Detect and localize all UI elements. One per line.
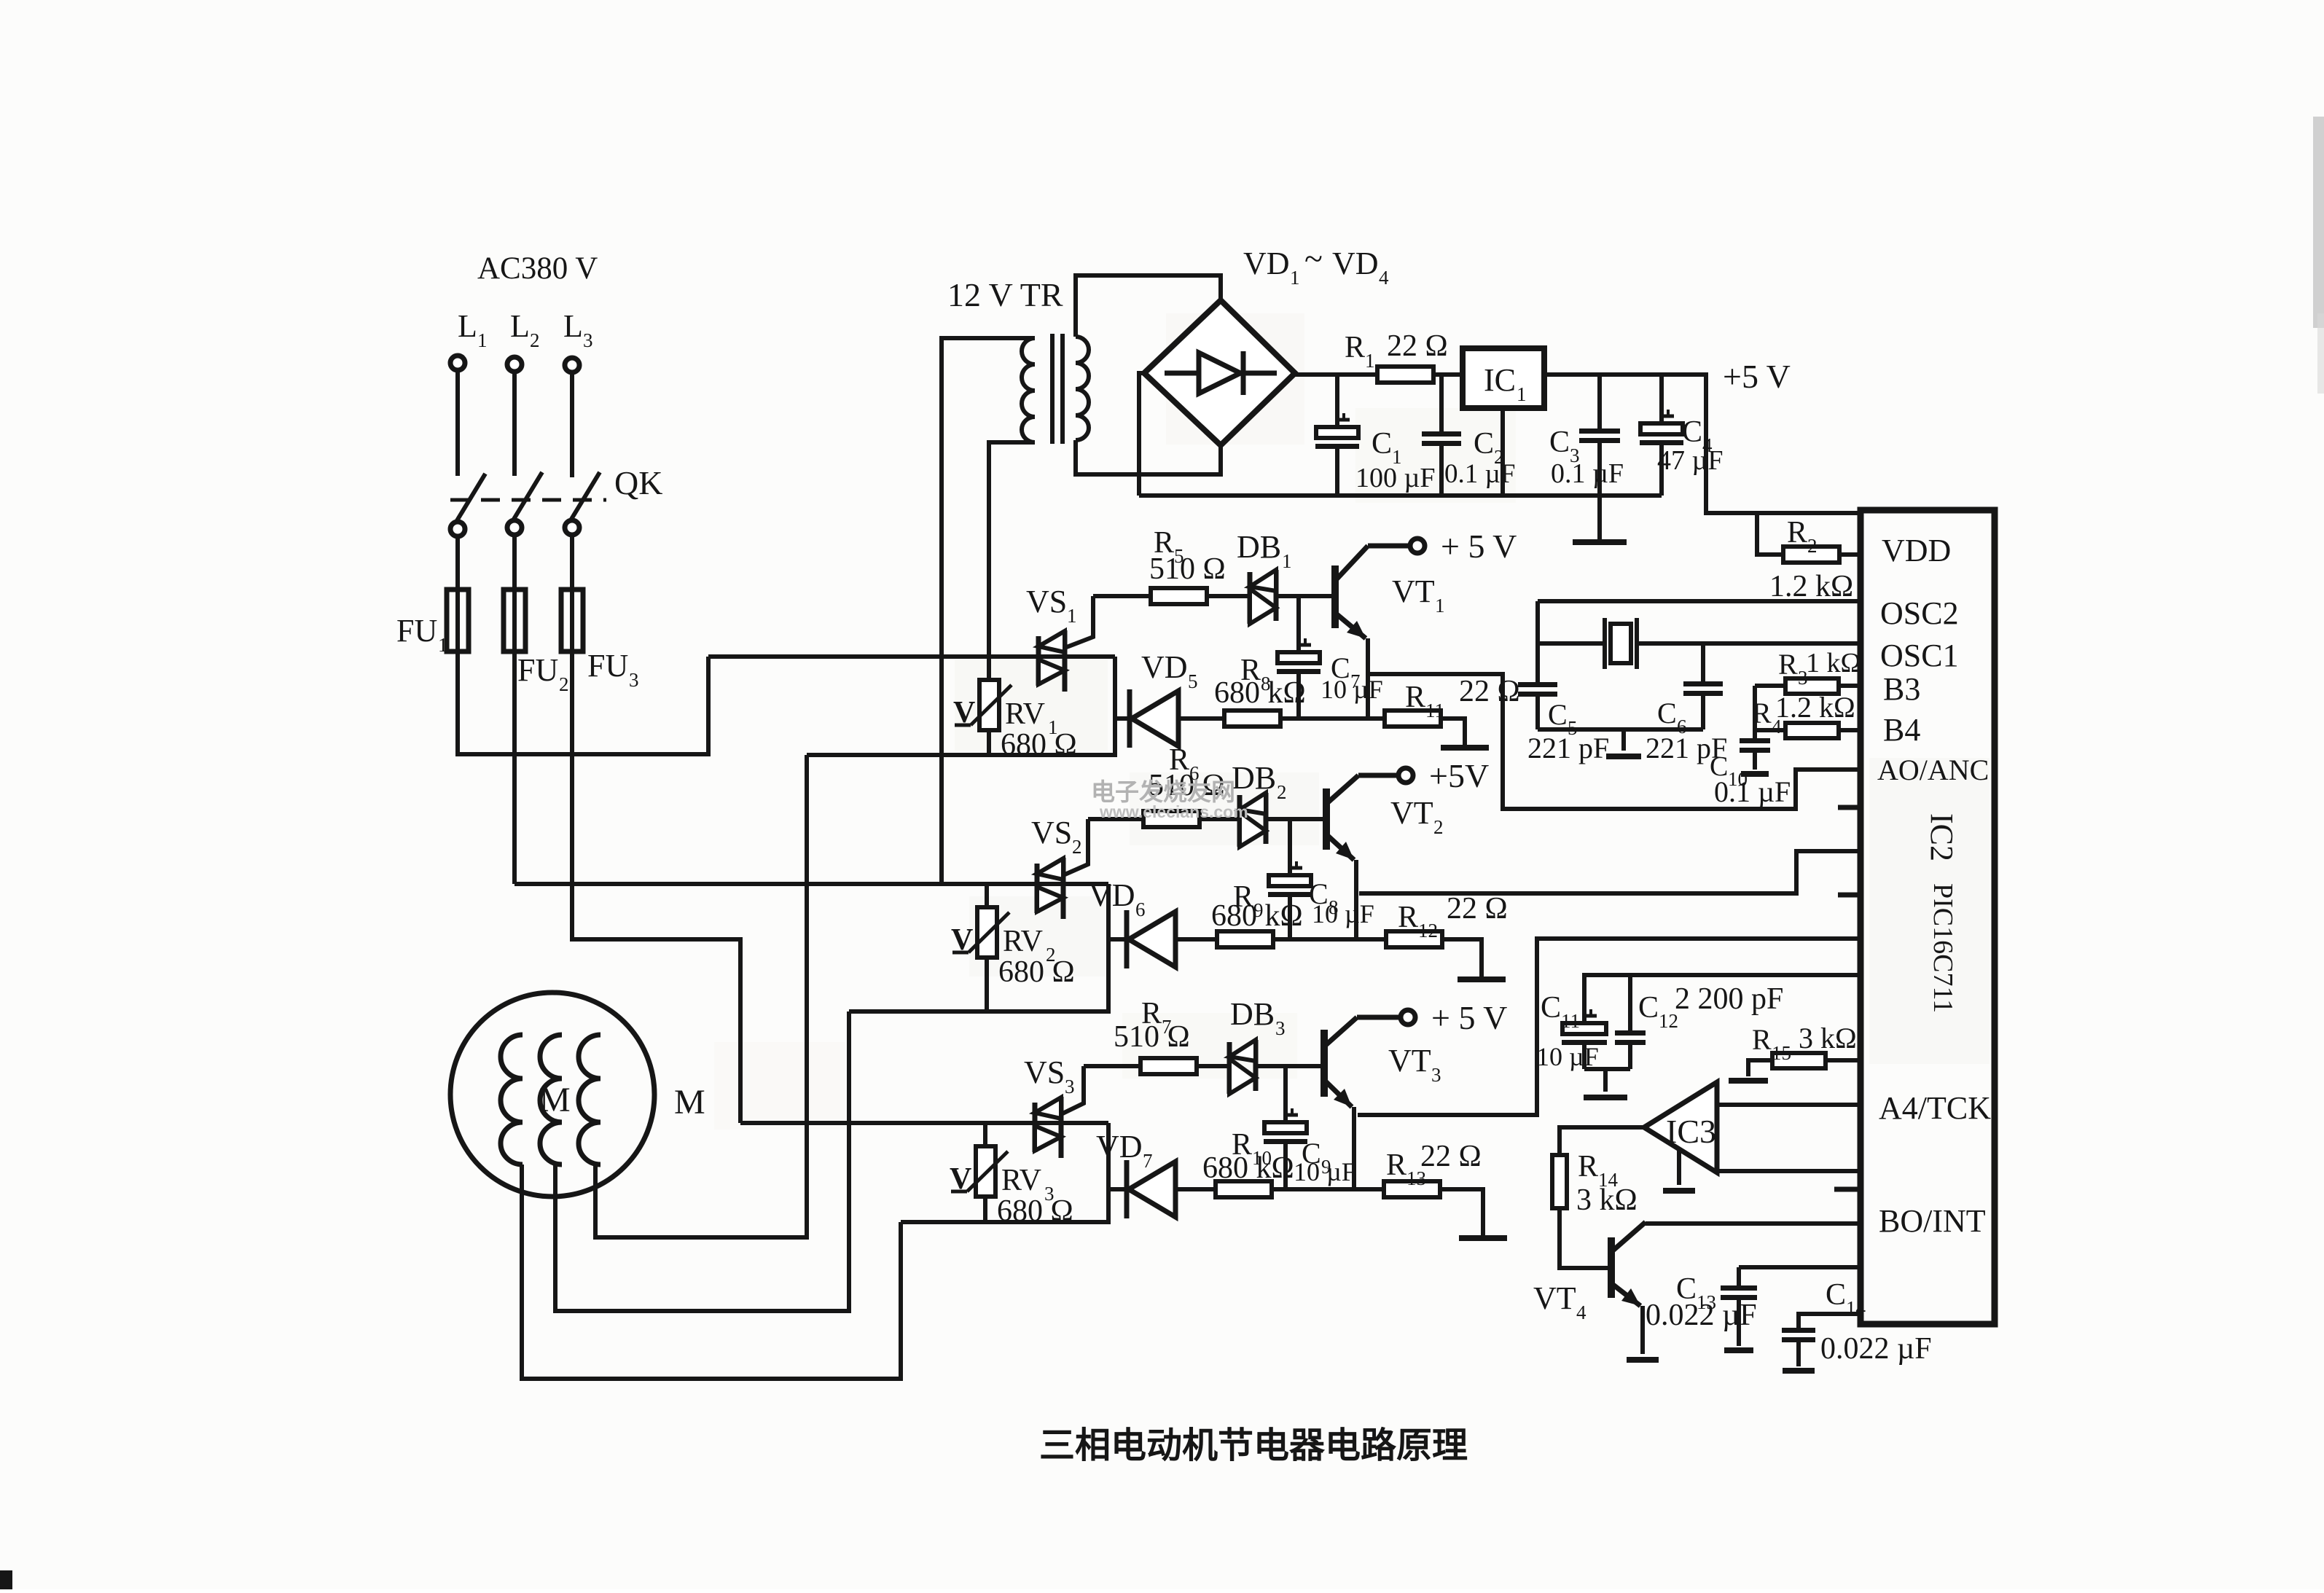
- switch QK pole1 blade: [456, 474, 485, 522]
- IC2 box: [1861, 510, 1995, 1324]
- svg-text:VS: VS: [1031, 815, 1072, 850]
- resistor R6: [1088, 817, 1143, 821]
- capacitor C11 lead: [1582, 1045, 1586, 1069]
- IC1 ground pin: [1501, 408, 1505, 496]
- fuse FU1: [447, 590, 469, 651]
- scan texture patches: [955, 659, 1108, 751]
- wire motor w2: [555, 1165, 849, 1311]
- svg-text:2: 2: [530, 329, 540, 351]
- svg-text:1.2 kΩ: 1.2 kΩ: [1775, 691, 1855, 724]
- IC1 box: [1463, 348, 1544, 408]
- transformer TR secondary winding: [1076, 337, 1089, 440]
- svg-text:3: 3: [629, 669, 639, 691]
- switch contact 2: [507, 520, 522, 535]
- capacitor C2: [1422, 431, 1461, 437]
- resistor R9: [1217, 931, 1273, 947]
- svg-text:VD: VD: [1141, 649, 1188, 685]
- fuse FU3: [561, 590, 583, 651]
- capacitor C10: [1740, 738, 1770, 743]
- resistor R2 branch: [1757, 513, 1783, 555]
- transistor VT4: [1608, 1237, 1615, 1298]
- wire IC3 in bottom: [1717, 1169, 1861, 1173]
- svg-text:OSC2: OSC2: [1880, 595, 1959, 631]
- svg-text:DB: DB: [1230, 996, 1275, 1032]
- svg-text:FU: FU: [587, 648, 628, 684]
- svg-text:VD: VD: [1243, 246, 1290, 281]
- svg-text:VD: VD: [1089, 877, 1135, 913]
- wire FU3 through+down: [572, 592, 740, 1123]
- svg-text:V: V: [950, 1162, 971, 1196]
- svg-text:RV: RV: [1003, 925, 1043, 958]
- wire box3 to motor: [522, 1222, 901, 1379]
- svg-text:L: L: [458, 308, 477, 344]
- wire L1 drop: [455, 371, 460, 476]
- capacitor C3 leads: [1597, 375, 1602, 428]
- triac VS2: [1035, 864, 1040, 913]
- wire R13 to ground: [1440, 1189, 1483, 1235]
- resistor R15: [1772, 1053, 1826, 1068]
- capacitor C13 lead2: [1737, 1300, 1741, 1346]
- svg-text:510 Ω: 510 Ω: [1114, 1020, 1190, 1054]
- svg-text:V: V: [951, 923, 973, 957]
- wire R10 to R13: [1272, 1187, 1384, 1191]
- svg-text:2: 2: [1277, 781, 1287, 803]
- svg-text:0.022 µF: 0.022 µF: [1820, 1332, 1932, 1366]
- terminal L3: [565, 358, 579, 372]
- capacitor C8: [1269, 875, 1311, 886]
- svg-text:3 kΩ: 3 kΩ: [1799, 1022, 1857, 1054]
- VT4 ground: [1627, 1357, 1659, 1363]
- svg-text:3: 3: [1431, 1064, 1441, 1086]
- wire OSC2: [1538, 599, 1861, 603]
- diode VD5: [1127, 689, 1132, 748]
- wire DB2 to VT2: [1266, 817, 1326, 821]
- svg-text:12: 12: [1418, 920, 1438, 942]
- svg-text:R: R: [1752, 1023, 1772, 1056]
- svg-text:12 V TR: 12 V TR: [947, 276, 1063, 313]
- ground under C3: [1573, 539, 1627, 545]
- wire box3 right+bottom: [901, 1123, 1108, 1222]
- wire sense ch1: [1370, 674, 1861, 809]
- svg-text:680 Ω: 680 Ω: [998, 955, 1075, 989]
- wire OSC2 drop: [1535, 601, 1540, 682]
- svg-text:5: 5: [1188, 670, 1198, 692]
- terminal L1: [450, 356, 465, 370]
- transistor VT1: [1331, 565, 1339, 628]
- motor M circle: [450, 993, 654, 1197]
- svg-text:2: 2: [559, 673, 569, 695]
- svg-text:3: 3: [1065, 1076, 1075, 1097]
- svg-text:VT: VT: [1533, 1280, 1576, 1316]
- svg-text:RV: RV: [1001, 1164, 1041, 1197]
- capacitor C6: [1683, 681, 1723, 686]
- resistor R11: [1385, 711, 1441, 727]
- svg-text:3 kΩ: 3 kΩ: [1576, 1183, 1638, 1217]
- svg-text:0.1 µF: 0.1 µF: [1551, 458, 1624, 489]
- resistor R5: [1093, 594, 1151, 598]
- svg-text:+ 5 V: + 5 V: [1441, 528, 1517, 565]
- svg-text:DB: DB: [1237, 529, 1281, 565]
- wire R14 to VT4: [1560, 1208, 1608, 1268]
- capacitor C7 lead: [1296, 596, 1301, 652]
- svg-text:www.elecians.com: www.elecians.com: [1099, 802, 1248, 821]
- svg-text:680 kΩ: 680 kΩ: [1211, 899, 1303, 933]
- wire C6 bottom: [1701, 696, 1705, 729]
- wire DB3 to VT3: [1256, 1064, 1324, 1068]
- svg-text:22 Ω: 22 Ω: [1447, 892, 1508, 925]
- svg-text:OSC1: OSC1: [1880, 638, 1959, 673]
- scan smudge right edge: [2313, 117, 2324, 328]
- svg-text:B4: B4: [1883, 712, 1920, 748]
- svg-text:2: 2: [1072, 836, 1082, 858]
- IC2 pin nub b: [1838, 893, 1861, 898]
- svg-text:6: 6: [1135, 899, 1146, 920]
- transformer TR primary winding: [1022, 338, 1035, 442]
- svg-text:1: 1: [477, 329, 488, 351]
- svg-text:1: 1: [1290, 267, 1300, 289]
- wire box2 to VD6: [1108, 937, 1127, 942]
- capacitor C4 leads: [1659, 375, 1664, 423]
- diode VD7: [1124, 1160, 1130, 1218]
- wire TR secondary top to bridge: [1076, 275, 1221, 337]
- wire pole2 to FU2: [512, 536, 517, 592]
- svg-text:C: C: [1638, 991, 1659, 1025]
- ground ch2: [1458, 976, 1506, 982]
- wire phase1: [708, 654, 1115, 659]
- wire sense ch2: [1359, 851, 1861, 893]
- svg-text:4: 4: [1576, 1302, 1586, 1323]
- wire motor w1: [522, 1165, 901, 1379]
- svg-text:14: 14: [1846, 1297, 1866, 1319]
- svg-text:B3: B3: [1883, 671, 1920, 707]
- wire OSC1: [1538, 641, 1605, 646]
- svg-text:47 µF: 47 µF: [1657, 445, 1724, 476]
- svg-text:FU: FU: [517, 652, 558, 688]
- bridge inner diode: [1165, 371, 1277, 376]
- wire VD6 to R9: [1175, 937, 1217, 942]
- svg-text:PIC16C711: PIC16C711: [1928, 883, 1958, 1013]
- svg-text:DB: DB: [1232, 760, 1276, 796]
- svg-text:R: R: [1405, 681, 1425, 714]
- wire sense ch3: [1358, 939, 1861, 1115]
- fuse FU2: [504, 590, 525, 651]
- wire osc bottom: [1538, 727, 1703, 732]
- svg-text:10 µF: 10 µF: [1312, 899, 1374, 928]
- svg-text:R: R: [1398, 901, 1418, 934]
- wire C11C12 bottom: [1584, 1067, 1630, 1071]
- svg-text:3: 3: [1275, 1017, 1286, 1039]
- C11C12 ground: [1603, 1069, 1608, 1092]
- triac VS3: [1033, 1103, 1038, 1152]
- varistor RV3 leads: [983, 1123, 987, 1146]
- wire IC3 out: [1560, 1127, 1644, 1155]
- capacitor C9: [1264, 1122, 1307, 1133]
- wire bridge minus down: [1139, 373, 1144, 496]
- switch QK pole2 blade: [513, 472, 542, 520]
- svg-text:IC2: IC2: [1924, 813, 1960, 861]
- svg-text:V: V: [953, 696, 975, 729]
- svg-text:QK: QK: [614, 464, 662, 501]
- op-amp IC3: [1644, 1082, 1717, 1173]
- svg-text:C: C: [1549, 426, 1570, 459]
- wire C5 bottom: [1535, 697, 1540, 729]
- svg-text:10 µF: 10 µF: [1294, 1157, 1356, 1186]
- wire TR primary bottom: [989, 442, 1035, 658]
- IC3 ground: [1677, 1149, 1681, 1185]
- svg-text:2: 2: [1807, 535, 1818, 557]
- svg-text:IC3: IC3: [1666, 1113, 1716, 1150]
- svg-text:R: R: [1752, 697, 1772, 729]
- svg-text:AC380 V: AC380 V: [477, 251, 598, 286]
- svg-text:VS: VS: [1026, 584, 1067, 619]
- svg-text:RV: RV: [1005, 697, 1045, 731]
- svg-text:680 kΩ: 680 kΩ: [1214, 676, 1306, 710]
- resistor R1: [1377, 367, 1433, 383]
- svg-text:22 Ω: 22 Ω: [1420, 1140, 1482, 1173]
- crystal X1: [1603, 618, 1607, 669]
- switch contact 1: [450, 522, 465, 536]
- diac DB1: [1248, 572, 1253, 624]
- resistor R2: [1783, 547, 1839, 563]
- svg-text:221 pF: 221 pF: [1527, 732, 1609, 764]
- svg-text:680 kΩ: 680 kΩ: [1202, 1151, 1294, 1185]
- svg-text:22 Ω: 22 Ω: [1459, 675, 1520, 708]
- svg-text:电子发烧友网: 电子发烧友网: [1091, 778, 1235, 805]
- svg-text:R: R: [1345, 331, 1365, 364]
- capacitor C13 wire: [1739, 1265, 1861, 1269]
- svg-text:3: 3: [583, 329, 593, 351]
- wire phase2: [515, 882, 1108, 886]
- svg-text:AO/ANC: AO/ANC: [1877, 754, 1989, 786]
- transformer core: [1050, 334, 1055, 444]
- wire R1 to IC1: [1433, 372, 1463, 377]
- capacitor C7 lead2: [1296, 674, 1301, 719]
- svg-text:L: L: [510, 308, 530, 344]
- wire phase3: [740, 1121, 1108, 1125]
- svg-text:1: 1: [438, 634, 448, 656]
- capacitor C12 lead: [1628, 975, 1632, 1030]
- wire VT4 collector to BO/INT: [1646, 1221, 1861, 1226]
- motor winding 3: [579, 1035, 600, 1165]
- wire VD7 to R10: [1175, 1187, 1216, 1191]
- capacitor C5: [1518, 682, 1557, 687]
- svg-text:0.1 µF: 0.1 µF: [1714, 775, 1791, 808]
- svg-text:~: ~: [1304, 240, 1323, 277]
- capacitor C12: [1615, 1030, 1646, 1036]
- capacitor C7: [1278, 652, 1320, 663]
- capacitor C8 lead2: [1288, 897, 1292, 939]
- resistor R12: [1386, 931, 1442, 947]
- terminal +5V ch1: [1410, 539, 1425, 553]
- varistor RV3: [976, 1146, 995, 1197]
- svg-text:100 µF: 100 µF: [1355, 463, 1436, 493]
- R15 ground: [1729, 1078, 1768, 1084]
- svg-text:1: 1: [1517, 383, 1527, 405]
- svg-text:C: C: [1541, 991, 1561, 1025]
- svg-text:C: C: [1548, 698, 1568, 731]
- svg-text:R: R: [1578, 1150, 1598, 1183]
- svg-text:VD: VD: [1096, 1129, 1143, 1165]
- diac DB3: [1227, 1042, 1232, 1094]
- svg-text:+5 V: +5 V: [1723, 358, 1791, 395]
- svg-text:C: C: [1657, 697, 1677, 729]
- transistor VT2: [1323, 788, 1330, 850]
- svg-text:C: C: [1826, 1278, 1846, 1312]
- capacitor C2 leads: [1439, 375, 1444, 431]
- svg-text:FU: FU: [396, 613, 437, 649]
- capacitor C3: [1579, 428, 1620, 434]
- capacitor C4: [1640, 423, 1683, 434]
- wire pole1 to FU1: [455, 537, 460, 592]
- svg-text:M: M: [539, 1081, 571, 1119]
- wire R9 to R12: [1273, 937, 1386, 942]
- capacitor C14: [1782, 1328, 1815, 1333]
- wire VD5 to R8: [1178, 716, 1224, 721]
- diode VD6: [1124, 910, 1130, 968]
- svg-text:VT: VT: [1388, 1043, 1431, 1079]
- svg-text:11: 11: [1561, 1010, 1580, 1032]
- svg-text:三相电动机节电器电路原理: 三相电动机节电器电路原理: [1039, 1426, 1468, 1465]
- svg-text:C: C: [1372, 427, 1392, 461]
- scan mark bottom-left: [0, 1570, 12, 1589]
- switch contact 3: [565, 520, 579, 535]
- wire C12 bottom: [1628, 1045, 1632, 1069]
- svg-text:680 Ω: 680 Ω: [1001, 728, 1077, 762]
- motor winding 2: [540, 1035, 562, 1165]
- resistor R8: [1224, 711, 1280, 727]
- switch QK pole3 blade: [571, 472, 600, 520]
- terminal +5V ch2: [1398, 768, 1413, 783]
- wire L3 drop: [570, 373, 574, 477]
- terminal +5V ch3: [1401, 1010, 1415, 1025]
- svg-text:1: 1: [1282, 550, 1292, 572]
- motor winding 1: [501, 1035, 523, 1165]
- wire C11C12 top: [1584, 975, 1861, 1023]
- varistor RV1 leads: [987, 657, 991, 680]
- svg-text:+5V: +5V: [1429, 757, 1489, 794]
- svg-text:1: 1: [1435, 595, 1445, 617]
- wire IC3 in top: [1717, 1103, 1861, 1107]
- wire box1 to motor: [595, 755, 807, 1237]
- svg-text:M: M: [674, 1083, 705, 1122]
- capacitor C9 lead: [1283, 1066, 1288, 1122]
- svg-text:2 200 pF: 2 200 pF: [1675, 982, 1783, 1016]
- IC2 pin nub c: [1834, 1187, 1861, 1192]
- wire R12 to ground: [1442, 939, 1482, 976]
- capacitor C13: [1721, 1285, 1757, 1291]
- ground ch3: [1459, 1235, 1507, 1241]
- svg-text:1: 1: [1067, 605, 1077, 627]
- svg-text:R: R: [1778, 648, 1798, 681]
- terminal L2: [507, 357, 522, 372]
- diac DB2: [1237, 795, 1243, 847]
- svg-text:7: 7: [1143, 1150, 1153, 1172]
- svg-text:L: L: [563, 308, 583, 344]
- capacitor C6 lead: [1701, 643, 1705, 681]
- wire box2 to motor: [555, 1011, 849, 1311]
- capacitor C8 lead: [1288, 819, 1292, 875]
- ground ch1: [1441, 745, 1489, 751]
- svg-text:1.2 kΩ: 1.2 kΩ: [1769, 570, 1853, 603]
- bridge rectifier VD1-VD4: [1144, 300, 1295, 445]
- svg-text:VT: VT: [1390, 795, 1433, 831]
- svg-text:22 Ω: 22 Ω: [1387, 329, 1448, 363]
- capacitor C11: [1562, 1023, 1606, 1034]
- wire R8 to R11: [1280, 716, 1385, 721]
- capacitor C1: [1316, 427, 1358, 438]
- svg-text:+ 5 V: + 5 V: [1431, 999, 1507, 1036]
- svg-text:IC: IC: [1484, 362, 1516, 398]
- svg-text:VD: VD: [1332, 246, 1379, 281]
- wire bridge plus to R1: [1295, 372, 1377, 377]
- switch QK dashed link: [450, 498, 606, 502]
- resistor R3: [1755, 684, 1785, 688]
- wire L2 drop: [512, 372, 517, 476]
- capacitor C14 wire: [1799, 1314, 1861, 1328]
- svg-text:VT: VT: [1392, 574, 1435, 609]
- svg-text:2: 2: [1433, 816, 1444, 838]
- svg-text:10 µF: 10 µF: [1321, 675, 1383, 704]
- wire pole3 to FU3: [570, 536, 574, 592]
- wire motor w3: [595, 1165, 807, 1237]
- transistor VT3: [1321, 1030, 1328, 1097]
- resistor R10: [1216, 1181, 1272, 1197]
- wire TR secondary bottom to bridge: [1076, 440, 1221, 474]
- svg-text:BO/INT: BO/INT: [1879, 1203, 1986, 1239]
- wire 0V rail: [1139, 493, 1662, 498]
- svg-text:C: C: [1682, 415, 1702, 449]
- wire IC1 out: [1544, 375, 1861, 513]
- capacitor C14 lead2: [1796, 1342, 1801, 1366]
- C13 ground: [1724, 1347, 1753, 1353]
- resistor R4: [1755, 728, 1785, 732]
- C14 ground: [1783, 1368, 1815, 1374]
- resistor R14: [1552, 1155, 1567, 1208]
- wire DB1 to VT1: [1276, 594, 1335, 598]
- capacitor C1 leads: [1335, 375, 1339, 427]
- svg-text:C: C: [1474, 427, 1494, 461]
- IC2 pin nub a: [1838, 805, 1861, 810]
- varistor RV1: [979, 680, 999, 730]
- svg-text:VS: VS: [1024, 1054, 1065, 1090]
- triac VS1: [1036, 636, 1041, 686]
- svg-text:R: R: [1787, 516, 1807, 549]
- wire box2 right+bottom: [849, 884, 1108, 1011]
- svg-text:1: 1: [1365, 350, 1375, 372]
- wire R11 to ground: [1441, 719, 1465, 745]
- wire FU2 through+down: [512, 592, 517, 884]
- wire FU1 through+down: [458, 592, 708, 754]
- resistor R7: [1084, 1064, 1141, 1068]
- svg-text:0.022 µF: 0.022 µF: [1646, 1299, 1757, 1332]
- varistor RV2: [977, 907, 997, 958]
- svg-text:R: R: [1386, 1148, 1406, 1182]
- svg-text:510 Ω: 510 Ω: [1149, 552, 1226, 586]
- capacitor C9 lead2: [1283, 1144, 1288, 1189]
- varistor RV2 leads: [985, 884, 989, 907]
- node R3R4 vertical: [1753, 686, 1757, 740]
- svg-text:A4/TCK: A4/TCK: [1879, 1090, 1991, 1126]
- svg-text:15: 15: [1772, 1042, 1791, 1064]
- osc ground: [1621, 729, 1626, 751]
- wire TR primary top: [942, 338, 1035, 884]
- C10 ground: [1753, 753, 1757, 770]
- svg-text:VDD: VDD: [1882, 533, 1951, 568]
- svg-text:4: 4: [1379, 267, 1389, 289]
- svg-text:680 Ω: 680 Ω: [997, 1194, 1073, 1228]
- wire box1 to VD5: [1115, 716, 1130, 721]
- resistor R13: [1384, 1181, 1440, 1197]
